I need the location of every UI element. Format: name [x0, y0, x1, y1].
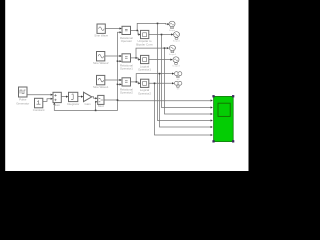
arrow into green block input 2 — [211, 106, 213, 108]
arrow into Sum bottom feedback — [53, 102, 55, 104]
wire Constant to Sum — [43, 99, 51, 102]
sine icon S2 — [98, 54, 104, 58]
arrow into scope I3 — [167, 47, 169, 49]
relop sign R1 — [125, 29, 128, 31]
junction on rail1 bus A — [157, 23, 159, 25]
sine wave source S1 — [97, 24, 105, 33]
junction on R1 output wire — [137, 30, 139, 32]
wire bus B vertical U1 signal to green block input 2 — [162, 35, 212, 108]
arrow into scope I1 — [167, 23, 169, 25]
svg-text:Scope: Scope — [169, 30, 176, 32]
integrator block — [69, 92, 78, 101]
junction on R3 output wire — [136, 81, 138, 83]
svg-text:Operator1: Operator1 — [138, 68, 151, 72]
junction on U3 output wire bus F — [154, 83, 156, 85]
arrow into R3 in2 — [120, 83, 122, 85]
arrow into U2 — [138, 58, 140, 60]
wire feedback loop — [54, 100, 117, 110]
sum block — [53, 92, 61, 102]
wire M out run to green in1 — [104, 99, 212, 102]
junction riser to R3 in2 — [117, 84, 119, 86]
block icons — [20, 27, 147, 104]
converter U2 — [141, 55, 149, 63]
converter U1 — [141, 30, 149, 38]
wire rail3 relop3 branch to scope5 and bus E — [136, 74, 173, 82]
wire Sum to Integrator — [61, 96, 66, 98]
svg-text:Sine Wave: Sine Wave — [94, 34, 108, 38]
svg-text:Sum: Sum — [54, 103, 61, 107]
wire bus C vertical R2 signal to green block input 3 — [165, 48, 212, 114]
scope icon I5 double — [174, 72, 181, 78]
input arrowheads — [51, 23, 213, 136]
arrow into Sum in2 — [51, 98, 53, 100]
arrow into Integrator — [66, 96, 68, 98]
svg-text:Scope2: Scope2 — [169, 54, 177, 56]
constant inner — [37, 101, 41, 105]
arrow into U1 — [138, 33, 140, 35]
white canvas — [5, 0, 248, 171]
svg-text:Scope3: Scope3 — [172, 66, 180, 68]
arrow into U3 — [138, 82, 140, 84]
wire U2 out to scope4 — [149, 59, 171, 61]
svg-text:Operator1: Operator1 — [120, 67, 133, 71]
M inner marks — [99, 98, 104, 102]
sine icon S1 — [99, 27, 105, 31]
svg-text:Generator: Generator — [16, 101, 29, 105]
green PWM subsystem block — [212, 95, 234, 142]
svg-text:Operator: Operator — [121, 39, 132, 43]
svg-text:Mod: Mod — [98, 104, 104, 108]
svg-text:Operator2: Operator2 — [138, 92, 151, 96]
wire feedback tap to M in2 — [94, 102, 96, 111]
arrow into green block input 1 — [211, 99, 213, 101]
pulse generator PG — [19, 87, 28, 97]
junction riser to R2 in2 — [117, 60, 119, 62]
sine wave source S2 — [97, 52, 105, 61]
relational operator R2 — [122, 54, 131, 62]
wire U3 out to scope6 and bus F — [149, 82, 173, 84]
arrow into R1 in1 — [120, 27, 122, 29]
scope icon I6 double — [174, 81, 181, 87]
wire S3 to R3 — [105, 79, 120, 81]
sine wave source S3 — [97, 75, 105, 84]
wire R1 out to U1 — [131, 30, 139, 34]
wire riser stub relop3 in2 — [118, 83, 120, 85]
arrow into green block input 4 — [211, 119, 213, 121]
junction dots — [95, 23, 166, 112]
junction feedback tap to M in2 — [95, 110, 97, 112]
wire riser stub relop2 in2 — [118, 60, 120, 62]
wire rail2 relop2 branch to scope3 and bus C — [136, 48, 168, 58]
wire R3 out to U3 — [131, 82, 139, 83]
scope icon I2 — [174, 32, 180, 39]
labels — [16, 34, 153, 112]
desktop black background — [0, 0, 256, 197]
wire Gain to M — [92, 97, 96, 99]
svg-text:Gain: Gain — [85, 102, 91, 106]
pulse icon PG — [20, 90, 26, 94]
arrow into R2 in1 — [120, 55, 122, 57]
arrow into M in2 — [95, 101, 97, 103]
arrow into green block input 3 — [211, 113, 213, 115]
junction on U1 output wire bus B — [161, 34, 163, 36]
relop sign R3 — [125, 81, 128, 83]
wire bus E vertical R3 signal to green block input 5 — [160, 74, 212, 127]
svg-text:Constant: Constant — [33, 108, 45, 112]
scope icon I3 — [169, 45, 175, 52]
arrow into R3 in1 — [120, 79, 122, 81]
wire R2 out to U2 — [131, 58, 139, 60]
converter U3 — [141, 79, 149, 87]
arrow into M in1 — [95, 97, 97, 99]
svg-text:Operator2: Operator2 — [120, 91, 133, 95]
arrow into green block input 6 — [211, 134, 213, 136]
arrow into scope I2 — [171, 33, 173, 35]
sine icon S3 — [98, 78, 104, 82]
svg-text:Bipolar Conv: Bipolar Conv — [136, 43, 153, 47]
integrator 1/s — [71, 94, 73, 100]
wire S2 to R2 — [105, 55, 120, 57]
arrow into scope I6 — [172, 82, 174, 84]
junction on rail2 bus C — [164, 47, 166, 49]
arrow into green block input 5 — [211, 126, 213, 128]
scope icon I1 — [169, 21, 175, 29]
arrow into scope I5 — [172, 73, 174, 75]
switch block M — [98, 95, 104, 104]
relational operator R1 — [122, 26, 131, 34]
U2 inner — [143, 58, 147, 62]
arrow into R2 in2 — [120, 60, 122, 62]
wire rail1 from R1 output branch to Scope arrow — [137, 23, 168, 30]
junction on R2 output wire — [135, 57, 137, 59]
junction M output riser feedback — [117, 99, 119, 101]
scope icon I4 — [173, 57, 179, 65]
arrow into R1 in2 — [120, 31, 122, 33]
junction on rail3 bus E — [159, 73, 161, 75]
constant block — [35, 98, 43, 108]
wire bus F vertical U3 signal to green block input 6 — [155, 83, 212, 135]
U3 inner — [143, 82, 147, 86]
wire PG to Sum — [27, 94, 51, 96]
arrow into scope I4 — [170, 59, 172, 61]
wire U1 out to scope2 and bus B — [149, 34, 172, 36]
relop sign R2 — [125, 57, 128, 59]
U1 inner — [143, 33, 147, 37]
wire Integrator to Gain — [78, 96, 81, 98]
gain triangle — [84, 92, 92, 101]
wire carrier riser to relational inputs — [118, 32, 120, 100]
wire bus A vertical R1 signal to green block input 4 — [158, 23, 212, 120]
selection handles — [212, 95, 214, 97]
svg-text:Scope1: Scope1 — [173, 41, 181, 43]
svg-text:Sine Wave2: Sine Wave2 — [93, 61, 109, 65]
arrow into Sum in1 — [51, 94, 53, 96]
wire S1 to R1 — [105, 28, 119, 30]
relational operator R3 — [122, 78, 131, 86]
svg-text:Sine Wave1: Sine Wave1 — [93, 85, 109, 89]
svg-text:Integrator: Integrator — [67, 102, 79, 106]
arrow into Gain — [81, 96, 83, 98]
sum plus signs — [54, 94, 56, 101]
